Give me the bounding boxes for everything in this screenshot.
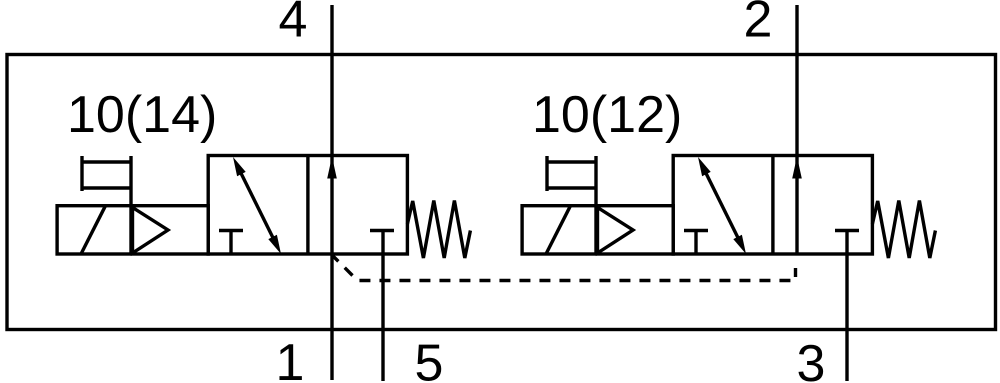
svg-text:10(12): 10(12) bbox=[532, 86, 682, 144]
valve V2 solenoid box bbox=[522, 206, 673, 254]
pilot control dashed line 12 bbox=[332, 255, 796, 281]
valve V1 coil symbol bbox=[82, 156, 131, 206]
valve V2 solenoid divider bbox=[594, 206, 597, 254]
valve V2 body bbox=[673, 156, 872, 255]
valve V1 blocked port T (left cell) bbox=[219, 231, 243, 255]
valve V1 pilot triangle bbox=[133, 208, 169, 254]
pilot dashed line vertical tick bbox=[794, 268, 797, 277]
valve V2 blocked port T (left cell) bbox=[684, 231, 708, 255]
port 5 line bbox=[381, 230, 384, 381]
svg-text:2: 2 bbox=[744, 0, 773, 49]
svg-text:4: 4 bbox=[279, 0, 308, 49]
valve V1 body bbox=[208, 156, 407, 255]
valve V2 cell divider bbox=[771, 156, 774, 255]
valve V1 return spring bbox=[407, 201, 470, 259]
svg-text:10(14): 10(14) bbox=[67, 86, 217, 144]
enclosure border bbox=[7, 55, 996, 330]
valve V2 crossed-flow arrow bbox=[698, 157, 746, 254]
valve V1 crossed-flow arrow bbox=[233, 157, 281, 254]
valve V2 up-flow arrowhead bbox=[792, 157, 802, 179]
valve V1 blocked port T (right cell) bbox=[370, 229, 394, 232]
valve V2 return spring bbox=[872, 201, 935, 259]
port 4/1 line bbox=[330, 5, 333, 380]
svg-text:5: 5 bbox=[415, 335, 444, 383]
valve V1 up-flow arrowhead bbox=[327, 157, 337, 179]
port 3 line bbox=[845, 230, 848, 381]
svg-text:1: 1 bbox=[276, 334, 305, 383]
valve V1 solenoid slash bbox=[81, 206, 106, 254]
valve V2 pilot triangle bbox=[598, 208, 634, 254]
svg-text:3: 3 bbox=[797, 335, 826, 383]
valve V2 blocked port T (right cell) bbox=[835, 229, 859, 232]
port 2 line bbox=[795, 5, 798, 255]
valve V2 solenoid slash bbox=[546, 206, 571, 254]
valve V1 cell divider bbox=[306, 156, 309, 255]
valve V1 solenoid box bbox=[57, 206, 208, 254]
valve V2 coil symbol bbox=[547, 156, 596, 206]
valve V1 solenoid divider bbox=[129, 206, 132, 254]
